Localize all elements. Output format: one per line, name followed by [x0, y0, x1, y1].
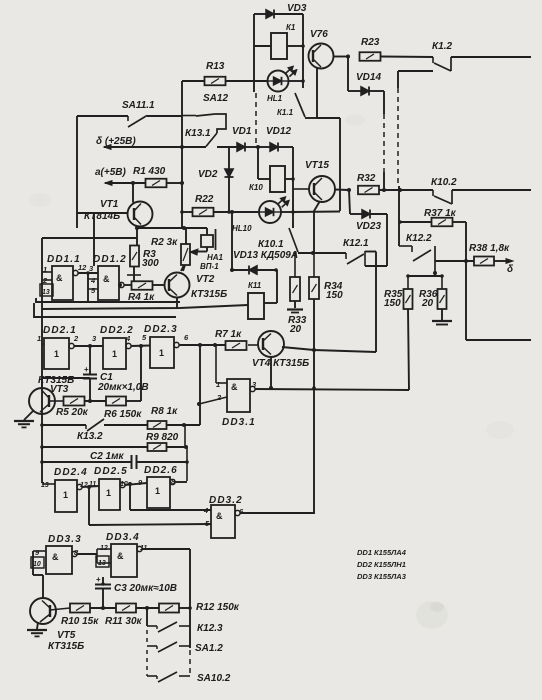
svg-text:R8 1к: R8 1к [151, 406, 178, 417]
svg-text:1: 1 [37, 334, 41, 343]
svg-text:С3 20мк≈10В: С3 20мк≈10В [114, 583, 177, 594]
svg-text:DD2: DD2 [357, 560, 373, 569]
svg-text:4: 4 [90, 276, 96, 285]
svg-text:1: 1 [63, 490, 68, 500]
svg-text:δ: δ [507, 264, 514, 275]
svg-text:К11: К11 [248, 281, 262, 290]
svg-text:НL10: НL10 [232, 224, 252, 233]
svg-text:DD3.1: DD3.1 [222, 417, 256, 428]
svg-text:VD3: VD3 [287, 3, 307, 14]
svg-text:VD2: VD2 [198, 169, 218, 180]
svg-text:VT15: VT15 [305, 160, 329, 171]
svg-text:VT4 КТ315Б: VT4 КТ315Б [252, 358, 309, 369]
svg-text:DD3: DD3 [357, 572, 373, 581]
svg-text:DD1.1: DD1.1 [47, 254, 81, 265]
svg-text:1: 1 [159, 348, 164, 358]
svg-text:DD1.2: DD1.2 [93, 254, 127, 265]
svg-text:К13.2: К13.2 [77, 431, 103, 442]
svg-text:КТ315Б: КТ315Б [191, 289, 227, 300]
svg-text:300: 300 [142, 258, 159, 269]
svg-text:К13.1: К13.1 [185, 128, 211, 139]
svg-text:12: 12 [78, 263, 87, 272]
svg-text:VT5: VT5 [57, 630, 76, 641]
svg-text:4: 4 [125, 334, 131, 343]
svg-text:1: 1 [54, 349, 59, 359]
svg-text:К10.2: К10.2 [431, 177, 457, 188]
svg-text:VD13 КД509А: VD13 КД509А [233, 250, 298, 261]
svg-text:12: 12 [100, 545, 108, 552]
svg-text:VT2: VT2 [196, 274, 215, 285]
svg-text:VD1: VD1 [232, 126, 252, 137]
svg-text:&: & [103, 274, 110, 284]
svg-text:R13: R13 [206, 61, 225, 72]
svg-text:R22: R22 [195, 194, 214, 205]
svg-text:R38 1,8к: R38 1,8к [469, 243, 510, 254]
svg-text:150: 150 [384, 298, 401, 309]
svg-text:VD14: VD14 [356, 72, 381, 83]
svg-text:δ (+25В): δ (+25В) [96, 136, 136, 147]
svg-text:К155ЛА3: К155ЛА3 [374, 572, 407, 581]
svg-text:К12.2: К12.2 [406, 233, 432, 244]
svg-text:ВП-1: ВП-1 [200, 262, 219, 271]
svg-text:4: 4 [203, 506, 209, 515]
svg-text:&: & [216, 511, 223, 521]
svg-text:VD12: VD12 [266, 126, 291, 137]
svg-text:К155ЛА4: К155ЛА4 [374, 548, 407, 557]
svg-text:a(+5В): a(+5В) [95, 167, 127, 178]
svg-text:R12 150к: R12 150к [196, 602, 240, 613]
svg-text:2: 2 [216, 393, 222, 402]
svg-text:SA1.2: SA1.2 [195, 643, 223, 654]
svg-text:R6 150к: R6 150к [104, 409, 142, 420]
svg-text:DD3.2: DD3.2 [209, 495, 243, 506]
svg-text:НL1: НL1 [267, 94, 283, 103]
svg-text:R7 1к: R7 1к [215, 329, 242, 340]
svg-text:К1.2: К1.2 [432, 41, 452, 52]
svg-text:R1 430: R1 430 [133, 166, 166, 177]
svg-text:DD2.5: DD2.5 [94, 466, 128, 477]
svg-text:SA12: SA12 [203, 93, 228, 104]
svg-text:DD2.6: DD2.6 [144, 465, 178, 476]
svg-text:R37 1к: R37 1к [424, 208, 457, 219]
svg-text:2: 2 [73, 334, 79, 343]
svg-text:V76: V76 [310, 29, 328, 40]
svg-text:&: & [231, 382, 238, 392]
svg-text:1: 1 [155, 486, 160, 496]
svg-text:SA10.2: SA10.2 [197, 673, 231, 684]
svg-text:SA11.1: SA11.1 [122, 100, 155, 111]
svg-text:К10.1: К10.1 [258, 239, 284, 250]
svg-text:1: 1 [112, 349, 117, 359]
svg-text:20: 20 [289, 324, 302, 335]
svg-text:R23: R23 [361, 37, 380, 48]
svg-text:К1.1: К1.1 [277, 108, 294, 117]
svg-text:&: & [52, 552, 59, 562]
svg-text:&: & [56, 273, 63, 283]
svg-text:13: 13 [98, 560, 106, 567]
svg-text:DD1: DD1 [357, 548, 372, 557]
svg-text:DD2.3: DD2.3 [144, 324, 178, 335]
svg-text:VT1: VT1 [100, 199, 119, 210]
svg-text:DD3.3: DD3.3 [48, 534, 82, 545]
svg-text:К10: К10 [249, 183, 263, 192]
svg-text:R10 15к: R10 15к [61, 616, 99, 627]
svg-text:R5 20к: R5 20к [56, 407, 89, 418]
svg-text:R2 3к: R2 3к [151, 237, 178, 248]
svg-text:10: 10 [33, 561, 41, 568]
svg-text:С2 1мк: С2 1мк [90, 451, 125, 462]
svg-text:R9 820: R9 820 [146, 432, 179, 443]
svg-text:R11 30к: R11 30к [105, 616, 143, 627]
svg-text:13: 13 [42, 289, 50, 296]
svg-text:VT3: VT3 [50, 384, 69, 395]
svg-text:DD2.1: DD2.1 [43, 325, 77, 336]
svg-text:+: + [96, 575, 101, 584]
svg-text:1: 1 [106, 488, 111, 498]
svg-text:К12.1: К12.1 [343, 238, 369, 249]
svg-text:К155ЛН1: К155ЛН1 [374, 560, 406, 569]
svg-text:К12.3: К12.3 [197, 623, 223, 634]
svg-text:DD3.4: DD3.4 [106, 532, 140, 543]
svg-text:R32: R32 [357, 173, 376, 184]
svg-text:150: 150 [326, 290, 343, 301]
svg-text:&: & [117, 551, 124, 561]
svg-text:DD2.4: DD2.4 [54, 467, 88, 478]
svg-text:КТ315Б: КТ315Б [48, 641, 84, 652]
svg-text:+: + [84, 365, 89, 374]
svg-text:13: 13 [41, 482, 49, 489]
svg-text:VD23: VD23 [356, 221, 381, 232]
svg-text:К1: К1 [286, 23, 296, 32]
svg-text:НА1: НА1 [207, 253, 224, 262]
svg-text:20: 20 [421, 298, 434, 309]
